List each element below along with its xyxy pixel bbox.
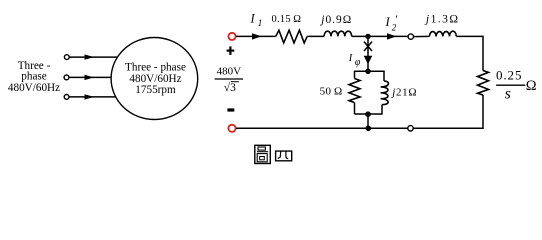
svg-text:′: ′ <box>395 12 398 26</box>
X mark on magnetizing branch <box>364 42 372 51</box>
svg-text:phase: phase <box>21 71 47 83</box>
svg-text:Ω: Ω <box>526 78 537 94</box>
wire: bottom bar to bottom rail <box>367 114 369 128</box>
resistor R2 0.25/s zigzag (vertical) <box>478 71 489 96</box>
figure caption: chinese character tu (figure) <box>255 145 270 163</box>
arrow phase b <box>85 75 95 80</box>
node N1 (junction dot, top) <box>365 34 370 39</box>
label I2' <box>385 12 399 32</box>
label I_phi <box>348 53 361 68</box>
node (dot on bottom bar) <box>365 111 371 117</box>
svg-text:j0.9Ω: j0.9Ω <box>319 14 352 26</box>
current arrow I1 <box>252 33 262 39</box>
node N2 (junction dot, bottom rail) <box>366 126 372 132</box>
node (open circle, top) <box>408 34 413 39</box>
svg-text:s: s <box>505 86 511 103</box>
wire phase c <box>69 96 116 98</box>
svg-text:j1.3Ω: j1.3Ω <box>424 12 460 25</box>
svg-text:0.15 Ω: 0.15 Ω <box>272 14 302 25</box>
svg-text:0.25: 0.25 <box>496 68 522 83</box>
svg-text:480V: 480V <box>217 66 242 78</box>
three-phase source label <box>8 60 60 94</box>
minus sign <box>227 108 234 111</box>
wire: R2 to bottom-right corner and left <box>413 95 483 128</box>
motor nameplate label <box>125 62 186 97</box>
wire: R1 to L1 <box>307 35 324 37</box>
svg-text:480V/60Hz: 480V/60Hz <box>8 82 60 94</box>
terminal A (phase a input) <box>64 55 69 60</box>
resistor R3 50ohm zigzag (vertical) <box>349 79 360 103</box>
svg-text:1755rpm: 1755rpm <box>135 84 176 96</box>
value label 0.25/s ohm <box>496 68 537 103</box>
terminal + (red, top) <box>228 33 235 40</box>
current arrow I2' <box>387 33 397 39</box>
svg-text:j21Ω: j21Ω <box>390 86 417 98</box>
inductor L1 j0.9ohm coil <box>324 31 352 36</box>
arrow phase a <box>85 54 95 59</box>
motor M (circle symbol) <box>111 38 198 120</box>
wire: node N1 to magnetizing branch <box>367 36 369 71</box>
node (dot on top bar) <box>365 69 370 74</box>
current arrow I_phi (down) <box>364 56 373 64</box>
wire top rail: terminal to resistor R1 <box>236 35 276 37</box>
wire: L1 to node N1 <box>352 35 368 37</box>
svg-text:Three - phase: Three - phase <box>125 62 186 74</box>
parallel magnetizing branch top bar <box>355 71 385 81</box>
terminal B (phase b input) <box>64 75 69 80</box>
resistor R1 0.15ohm zigzag <box>276 30 307 43</box>
parallel magnetizing branch bottom bar <box>355 105 383 114</box>
figure caption: chinese character si (four) <box>276 151 292 161</box>
svg-text:I: I <box>250 12 256 26</box>
terminal - (red, bottom) <box>228 125 235 132</box>
wire: R3 to bottom bar <box>354 103 356 114</box>
inductor L3 j21ohm coil (vertical) <box>381 81 389 105</box>
svg-text:50 Ω: 50 Ω <box>320 85 343 97</box>
wire: L2 to top-right corner and down <box>456 36 483 70</box>
wire phase b <box>69 76 111 78</box>
wire: node N1 to open node (top) <box>368 35 408 37</box>
wire: open node to L2 <box>414 35 430 37</box>
inductor L2 j1.3ohm coil <box>429 31 456 36</box>
svg-text:I: I <box>385 15 391 29</box>
arrow phase c <box>85 94 95 99</box>
svg-text:φ: φ <box>355 57 361 68</box>
wire bottom rail: open node to terminal - <box>236 127 408 129</box>
svg-text:I: I <box>348 53 353 64</box>
svg-text:√3: √3 <box>224 81 236 94</box>
wire phase a <box>69 56 117 58</box>
label I1 <box>250 12 263 30</box>
terminal C (phase c input) <box>64 95 69 100</box>
svg-text:1: 1 <box>258 19 263 29</box>
plus sign <box>227 46 235 55</box>
node (open circle, bottom) <box>408 126 413 131</box>
source value 480V/sqrt3 <box>215 66 244 95</box>
